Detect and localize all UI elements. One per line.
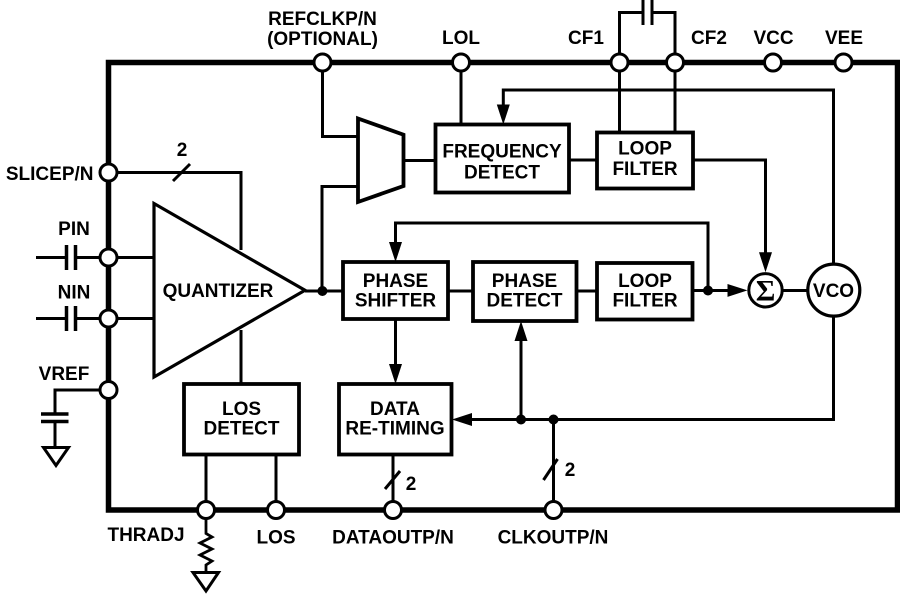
wire quantizer apex to phase shifter xyxy=(305,290,343,293)
phase detect block xyxy=(473,262,577,321)
quantizer A1 triangle xyxy=(154,204,305,378)
svg-text:CLKOUTP/N: CLKOUTP/N xyxy=(498,528,609,549)
svg-text:VCC: VCC xyxy=(753,28,793,49)
LOS detect block xyxy=(184,384,299,455)
wire phase shifter to phase detect xyxy=(448,290,473,293)
ground symbol below VREF capacitor xyxy=(44,448,69,466)
arrowhead into data re-timing right xyxy=(452,413,472,426)
wire clock node to CLKOUTP/N xyxy=(552,420,555,502)
svg-text:CF2: CF2 xyxy=(691,28,727,49)
phase shifter block xyxy=(343,262,448,319)
capacitor on NIN input xyxy=(36,317,67,320)
wire VCO feedback to frequency detect xyxy=(503,90,833,265)
wire CF1 to loop filter 1 xyxy=(618,71,621,133)
wire mux output to frequency detect xyxy=(404,159,436,162)
svg-text:FILTER: FILTER xyxy=(612,159,677,180)
wire loop filter 1 to sigma summer xyxy=(693,160,766,254)
loop filter 2 block xyxy=(597,263,693,320)
wire frequency detect to loop filter 1 xyxy=(569,159,597,162)
slash 2-bus on DATAOUTP/N wire xyxy=(385,471,400,489)
capacitor on PIN input xyxy=(36,256,67,259)
pin circle CLKOUTP/N xyxy=(545,502,562,519)
svg-text:SHIFTER: SHIFTER xyxy=(355,291,437,312)
svg-text:2: 2 xyxy=(406,474,417,495)
svg-text:2: 2 xyxy=(177,140,188,161)
pin circle CF1 xyxy=(611,54,628,71)
wire phase shifter to data re-timing xyxy=(394,319,397,366)
wire quantizer output node to mux bottom input xyxy=(322,187,358,292)
svg-text:FREQUENCY: FREQUENCY xyxy=(442,142,562,163)
wire NIN to quantizer xyxy=(117,317,154,320)
svg-text:FILTER: FILTER xyxy=(612,291,677,312)
wire LOL to frequency detect xyxy=(460,71,463,125)
wire quantizer to LOS detect xyxy=(240,330,243,384)
arrowhead into phase shifter top xyxy=(389,242,402,262)
svg-text:SLICEP/N: SLICEP/N xyxy=(6,164,94,185)
svg-text:LOS: LOS xyxy=(222,399,261,420)
svg-text:PIN: PIN xyxy=(58,219,90,240)
pin circle VCC xyxy=(765,54,782,71)
arrowhead into phase detect bottom xyxy=(515,321,528,341)
svg-text:THRADJ: THRADJ xyxy=(107,525,184,546)
svg-text:DETECT: DETECT xyxy=(204,419,280,440)
svg-text:DATAOUTP/N: DATAOUTP/N xyxy=(332,528,454,549)
svg-text:2: 2 xyxy=(565,460,576,481)
loop filter 1 block xyxy=(597,133,693,189)
pin circle LOS xyxy=(268,502,285,519)
wire CF2 to loop filter 1 xyxy=(674,71,677,133)
junction dot after loop filter 2 xyxy=(703,286,713,296)
wire loop filter 2 to sigma summer xyxy=(693,289,730,292)
sigma summer circle xyxy=(749,274,782,307)
wire clock node to phase detect xyxy=(520,340,523,420)
pin circle NIN xyxy=(100,310,117,327)
wire phase detect to loop filter 2 xyxy=(577,290,598,293)
data re-timing block xyxy=(339,384,452,455)
svg-text:LOOP: LOOP xyxy=(618,271,672,292)
mux U1 xyxy=(358,119,404,203)
svg-text:QUANTIZER: QUANTIZER xyxy=(163,281,274,302)
svg-text:DETECT: DETECT xyxy=(487,291,563,312)
svg-text:LOL: LOL xyxy=(442,28,480,49)
wire PIN to quantizer xyxy=(117,256,154,259)
wire data re-timing to DATAOUTP/N xyxy=(392,455,395,502)
svg-text:DETECT: DETECT xyxy=(464,163,540,184)
svg-text:VEE: VEE xyxy=(825,28,863,49)
svg-text:CF1: CF1 xyxy=(568,28,604,49)
pin circle THRADJ xyxy=(198,502,215,519)
VCO circle xyxy=(808,264,860,316)
resistor on THRADJ xyxy=(200,519,212,573)
capacitor C1 external between CF1 and CF2 xyxy=(620,13,644,55)
chip boundary rectangle xyxy=(109,63,898,511)
pin circle LOL xyxy=(453,54,470,71)
slash 2-bus on CLKOUTP/N wire xyxy=(544,459,558,480)
junction dot clock to phase detect xyxy=(516,415,526,425)
pin circle PIN xyxy=(100,249,117,266)
capacitor on VREF to ground xyxy=(55,390,100,414)
wire sigma to VCO xyxy=(781,289,808,292)
svg-text:PHASE: PHASE xyxy=(363,271,428,292)
svg-text:NIN: NIN xyxy=(58,283,91,304)
svg-text:REFCLKP/N: REFCLKP/N xyxy=(268,9,377,30)
slash 2-bus on SLICEP/N wire xyxy=(173,164,190,181)
wire REFCLKP/N to mux top input xyxy=(323,71,359,137)
pin circle VREF xyxy=(100,382,117,399)
svg-text:DATA: DATA xyxy=(370,399,420,420)
wire SLICEP/N into quantizer xyxy=(117,173,241,251)
wire VCO to data re-timing and clock out xyxy=(470,317,834,420)
pin circle VEE xyxy=(835,54,852,71)
svg-text:VREF: VREF xyxy=(39,364,90,385)
pin circle CF2 xyxy=(667,54,684,71)
feedback wire loop filter node to phase shifter xyxy=(396,223,709,291)
svg-text:LOOP: LOOP xyxy=(618,139,672,160)
arrowhead into data re-timing top xyxy=(389,364,402,384)
svg-text:(OPTIONAL): (OPTIONAL) xyxy=(267,29,378,50)
junction dot at quantizer output xyxy=(317,286,327,296)
svg-text:RE-TIMING: RE-TIMING xyxy=(345,419,444,440)
pin circle DATAOUTP/N xyxy=(385,502,402,519)
wire LOS detect to LOS xyxy=(275,455,278,502)
arrowhead into sigma left xyxy=(728,284,748,297)
arrowhead into frequency detect xyxy=(497,105,510,125)
ground symbol below THRADJ resistor xyxy=(193,573,219,592)
svg-text:PHASE: PHASE xyxy=(492,271,557,292)
pin circle REFCLKP/N xyxy=(314,54,331,71)
junction dot clock out xyxy=(549,415,559,425)
svg-text:LOS: LOS xyxy=(256,528,295,549)
pin circle SLICEP/N xyxy=(100,164,117,181)
arrowhead into sigma top xyxy=(759,252,772,272)
svg-text:Σ: Σ xyxy=(756,275,776,308)
frequency detect block xyxy=(436,125,570,193)
svg-text:VCO: VCO xyxy=(813,281,854,302)
wire LOS detect to THRADJ xyxy=(205,455,208,502)
